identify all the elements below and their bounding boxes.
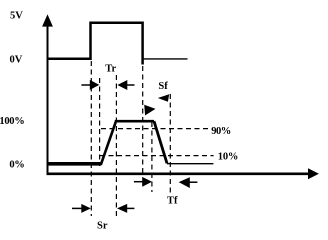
svg-text:Sf: Sf [158, 81, 168, 92]
svg-text:Sr: Sr [97, 221, 108, 232]
svg-text:0%: 0% [9, 159, 24, 170]
svg-text:100%: 100% [0, 116, 24, 127]
svg-text:90%: 90% [211, 126, 231, 137]
svg-text:Tr: Tr [105, 64, 116, 75]
svg-text:10%: 10% [218, 151, 238, 162]
svg-text:Tf: Tf [167, 195, 178, 206]
svg-text:0V: 0V [10, 55, 23, 66]
svg-text:5V: 5V [10, 11, 23, 22]
